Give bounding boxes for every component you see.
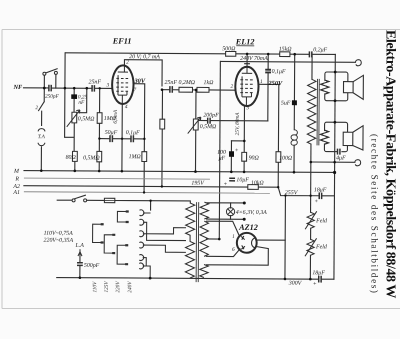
svg-text:EF11: EF11 <box>112 37 132 46</box>
svg-text:0,5MΩ: 0,5MΩ <box>83 155 100 161</box>
svg-text:50μF: 50μF <box>105 130 118 136</box>
svg-text:250V: 250V <box>268 80 283 87</box>
svg-text:25V, 80mA: 25V, 80mA <box>235 112 241 136</box>
svg-text:100Ω: 100Ω <box>279 156 293 162</box>
svg-text:220V: 220V <box>115 281 121 293</box>
svg-text:1: 1 <box>260 79 263 85</box>
svg-text:+: + <box>314 199 318 205</box>
svg-text:110V~0,75A: 110V~0,75A <box>44 231 74 237</box>
svg-text:+: + <box>235 148 239 154</box>
svg-text:T.A: T.A <box>38 134 46 140</box>
svg-text:220V~0,35A: 220V~0,35A <box>44 238 74 244</box>
svg-text:μF: μF <box>219 156 226 162</box>
svg-text:0,2μF: 0,2μF <box>313 47 327 53</box>
svg-text:0,5MΩ: 0,5MΩ <box>200 124 217 130</box>
svg-text:25nF: 25nF <box>165 80 178 86</box>
svg-text:255V: 255V <box>285 190 299 196</box>
svg-text:25nF: 25nF <box>89 79 102 85</box>
svg-text:+: + <box>313 281 317 287</box>
svg-text:Feld: Feld <box>315 218 327 224</box>
svg-text:+: + <box>223 182 227 188</box>
svg-text:200pF: 200pF <box>203 113 219 119</box>
svg-text:125V: 125V <box>104 281 110 293</box>
svg-text:500Ω: 500Ω <box>222 46 236 52</box>
svg-text:6,9mA: 6,9mA <box>113 109 119 123</box>
svg-text:2: 2 <box>126 60 129 66</box>
svg-text:A1: A1 <box>12 190 20 196</box>
svg-text:nF: nF <box>78 100 85 106</box>
svg-text:90Ω: 90Ω <box>249 155 260 161</box>
svg-text:Feld: Feld <box>315 244 327 250</box>
svg-text:10μF: 10μF <box>236 177 249 183</box>
svg-text:7: 7 <box>133 87 136 93</box>
svg-text:(rechte Seite des Schaltbildes: (rechte Seite des Schaltbildes) <box>370 134 380 295</box>
svg-text:18μF: 18μF <box>312 270 325 276</box>
svg-text:R: R <box>14 176 19 182</box>
svg-text:L.A: L.A <box>75 243 85 249</box>
svg-text:Elektro-Apparate-Fabrik, Köppe: Elektro-Apparate-Fabrik, Köppelsdorf 88/… <box>383 30 398 298</box>
svg-text:30V: 30V <box>134 78 146 85</box>
svg-text:EL12: EL12 <box>235 37 255 46</box>
svg-text:500pF: 500pF <box>84 263 100 269</box>
svg-text:3: 3 <box>106 83 109 89</box>
svg-text:80Ω: 80Ω <box>66 155 77 161</box>
svg-text:1kΩ: 1kΩ <box>204 80 215 86</box>
svg-text:240V: 240V <box>127 281 133 293</box>
svg-text:240V 70mA: 240V 70mA <box>240 56 268 62</box>
svg-text:2: 2 <box>230 84 233 90</box>
svg-text:0,1μF: 0,1μF <box>126 130 140 136</box>
svg-text:3: 3 <box>246 105 249 111</box>
svg-text:15kΩ: 15kΩ <box>279 47 293 53</box>
svg-text:1: 1 <box>232 234 235 240</box>
svg-text:6: 6 <box>232 247 235 253</box>
svg-text:250pF: 250pF <box>45 94 60 100</box>
svg-text:0,5MΩ: 0,5MΩ <box>78 116 95 122</box>
svg-text:0,2MΩ: 0,2MΩ <box>179 80 196 86</box>
svg-text:18μF: 18μF <box>314 187 327 193</box>
svg-text:2: 2 <box>35 105 38 111</box>
svg-text:195V: 195V <box>191 181 205 187</box>
svg-text:4×6,3V, 0,3A: 4×6,3V, 0,3A <box>236 210 267 216</box>
svg-text:4: 4 <box>125 104 128 110</box>
svg-text:0,1μF: 0,1μF <box>272 69 286 75</box>
svg-text:110V: 110V <box>92 281 98 293</box>
svg-text:AZ12: AZ12 <box>238 223 258 232</box>
svg-text:1MΩ: 1MΩ <box>129 154 142 160</box>
svg-text:10kΩ: 10kΩ <box>251 180 265 186</box>
svg-text:20 V; 0,7 mA: 20 V; 0,7 mA <box>129 54 160 60</box>
svg-text:5uF: 5uF <box>281 101 291 107</box>
svg-text:NF: NF <box>12 84 23 91</box>
svg-text:300V: 300V <box>288 281 303 287</box>
svg-text:4μF: 4μF <box>336 155 346 161</box>
